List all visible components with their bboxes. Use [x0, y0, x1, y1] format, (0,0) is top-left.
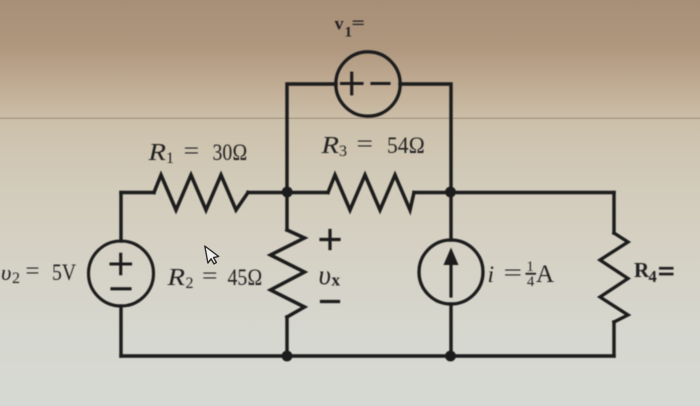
resistor R3 — [328, 175, 414, 210]
wire middle right — [414, 191, 614, 194]
svg-text:x: x — [332, 271, 341, 290]
resistor R2 — [271, 230, 305, 317]
svg-text:=: = — [184, 138, 200, 164]
svg-text:i: i — [488, 262, 495, 288]
V2 plus sign — [111, 254, 131, 273]
wire left branch lower — [119, 306, 122, 356]
svg-text:4: 4 — [527, 274, 535, 290]
wire middle center — [248, 191, 328, 194]
svg-text:2: 2 — [12, 270, 20, 287]
wire R4 branch lower — [612, 322, 615, 356]
wire current source branch lower — [449, 304, 452, 356]
svg-text:54Ω: 54Ω — [387, 133, 425, 159]
wire v1 loop left segment — [287, 84, 336, 192]
svg-text:υ: υ — [1, 260, 11, 285]
svg-text:=: = — [504, 260, 523, 286]
svg-text:5V: 5V — [52, 260, 76, 286]
mouse cursor — [205, 245, 219, 264]
svg-text:R: R — [147, 140, 166, 166]
wire v1 loop right segment — [400, 84, 451, 192]
svg-text:45Ω: 45Ω — [228, 265, 263, 291]
V2 minus sign — [112, 287, 130, 290]
svg-text:v: v — [335, 14, 344, 34]
svg-text:R: R — [320, 133, 339, 159]
vx minus sign — [322, 300, 339, 303]
svg-text:A: A — [536, 261, 554, 288]
voltage source V2 — [89, 241, 154, 306]
bottom wire — [121, 354, 614, 357]
svg-text:=: = — [26, 258, 40, 284]
wire R2 branch lower — [285, 317, 288, 356]
wire left branch upper — [119, 193, 122, 242]
node dot B bottom — [445, 351, 456, 362]
svg-text:3: 3 — [339, 143, 347, 160]
svg-text:=: = — [357, 131, 374, 157]
svg-text:2: 2 — [186, 275, 194, 292]
current source arrow — [449, 263, 452, 296]
wire R4 branch upper — [612, 193, 615, 234]
svg-text:4: 4 — [649, 267, 657, 286]
svg-text:=: = — [202, 263, 218, 289]
wire R2 branch upper — [285, 193, 288, 231]
svg-text:=: = — [352, 14, 366, 33]
node dot B top — [445, 187, 456, 198]
resistor R1 — [154, 175, 248, 210]
svg-text:υ: υ — [319, 260, 331, 290]
wire current source branch upper — [449, 193, 452, 241]
node dot A top — [282, 187, 293, 198]
svg-text:30Ω: 30Ω — [213, 140, 248, 166]
svg-text:1: 1 — [166, 150, 174, 167]
wire middle left — [121, 191, 154, 194]
svg-text:R: R — [166, 265, 185, 291]
vx plus sign — [321, 231, 339, 249]
svg-text:1: 1 — [527, 259, 534, 275]
node dot A bottom — [282, 351, 293, 362]
V1 minus sign — [372, 82, 389, 85]
V1 plus sign — [342, 73, 363, 94]
resistor R4 — [600, 233, 628, 322]
current source I1 — [419, 240, 483, 304]
voltage source V1 — [336, 52, 400, 116]
